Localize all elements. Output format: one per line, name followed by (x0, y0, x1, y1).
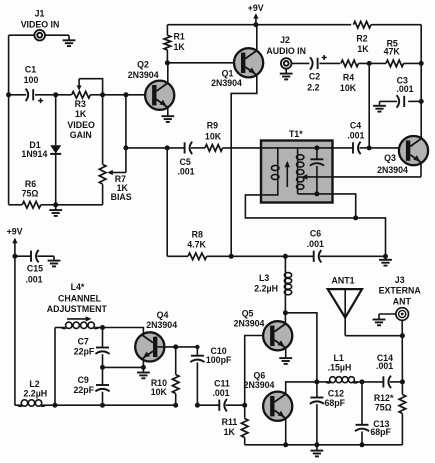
svg-text:100: 100 (24, 75, 39, 85)
Q5 base wire up from node (245, 336, 265, 406)
svg-text:+9V: +9V (7, 226, 23, 236)
node Q1 emitter / R8 row (229, 254, 234, 259)
svg-text:AUDIO IN: AUDIO IN (266, 46, 306, 56)
main ground bottom (316, 445, 318, 451)
wire R6 row to R7 bottom (56, 204, 103, 206)
svg-text:.15µH: .15µH (328, 363, 352, 373)
svg-text:R9: R9 (207, 121, 218, 131)
Q4 emitter down to junction and ground (142, 360, 144, 373)
capacitor C2 2.2 (317, 58, 319, 69)
capacitor C10 100pF (196, 347, 198, 356)
svg-text:J2: J2 (280, 35, 290, 45)
node left rail / C1 row (6, 92, 11, 97)
svg-text:2N3904: 2N3904 (146, 320, 177, 330)
resistor R8 4.7K (166, 148, 168, 256)
Q2 emitter to ground (167, 108, 169, 116)
svg-text:2N3904: 2N3904 (244, 380, 275, 390)
svg-text:10K: 10K (205, 131, 222, 141)
resistor R5 47K (386, 60, 404, 67)
node C7/C9 junction (100, 365, 105, 370)
ground at C15 (53, 256, 55, 260)
T1 secondary bottom wire out right (317, 194, 356, 218)
node D1 top (53, 92, 58, 97)
svg-text:L2: L2 (29, 379, 39, 389)
node L4/C7 top (100, 325, 105, 330)
svg-text:47K: 47K (384, 47, 401, 57)
Q5 collector wire up to L3 node (284, 313, 286, 324)
resistor R12 75ohm (399, 395, 406, 414)
svg-text:R2: R2 (356, 34, 367, 44)
svg-text:68pF: 68pF (370, 427, 391, 437)
T1 secondary tap wire to Q3 emitter (303, 176, 421, 178)
svg-text:10K: 10K (340, 83, 357, 93)
Q1 emitter wire jog down (231, 75, 257, 256)
svg-text:GAIN: GAIN (70, 130, 92, 140)
svg-text:J1: J1 (35, 8, 45, 18)
capacitor C13 68pF (361, 382, 363, 425)
resistor R11 1K (241, 419, 248, 438)
Q3 collector wire (420, 137, 422, 138)
bottom output rail (245, 444, 403, 446)
L4 coil (55, 327, 65, 329)
svg-text:.001: .001 (307, 239, 324, 249)
connector J2 AUDIO IN (281, 58, 292, 69)
svg-text:.001: .001 (212, 388, 229, 398)
node L3 top (283, 254, 288, 259)
ground at J1 (63, 39, 76, 41)
Q1 collector to +9V (256, 25, 258, 51)
svg-text:C15: C15 (27, 263, 43, 273)
svg-text:L3: L3 (259, 273, 269, 283)
wire L3 node jog right and down (285, 313, 317, 382)
wire Q1 base (167, 62, 234, 64)
node C11 / R11 / Q5 base (242, 403, 247, 408)
transistor Q3 2N3904 (399, 136, 428, 165)
L4 adjustment arrow (67, 318, 87, 320)
top +9V rail wire (167, 24, 351, 26)
svg-text:C4: C4 (350, 121, 361, 131)
svg-text:2N3904: 2N3904 (211, 78, 242, 88)
node / ground right of C6 (383, 254, 388, 259)
svg-text:J3: J3 (395, 275, 405, 285)
wire L4 row to Q4 collector (103, 328, 144, 335)
Q6 collector wire up-right (286, 382, 317, 394)
svg-text:R8: R8 (192, 230, 203, 240)
svg-text:VIDEO IN: VIDEO IN (21, 19, 60, 29)
resistor R4 10K (341, 60, 359, 67)
svg-text:.001: .001 (396, 84, 413, 94)
svg-text:75Ω: 75Ω (22, 188, 39, 198)
wire J1 left and down left rail (9, 34, 35, 36)
wire J2 to C2 (292, 62, 310, 64)
wire to Q2 base (103, 94, 153, 96)
resistor R1 1K (166, 25, 168, 36)
L4 left wire down (54, 328, 56, 406)
Q2 collector wire up (167, 63, 169, 83)
svg-text:T1*: T1* (289, 129, 303, 139)
svg-text:100pF: 100pF (206, 355, 232, 365)
transistor Q4 2N3904 (mirrored) (135, 332, 164, 361)
node C14 right / R12 top (400, 379, 405, 384)
J3 pin down to C14 node (401, 320, 403, 382)
svg-text:2N3904: 2N3904 (128, 70, 159, 80)
T1 internal capacitor (316, 148, 318, 159)
svg-text:R1: R1 (174, 31, 185, 41)
svg-text:10K: 10K (151, 387, 168, 397)
connector J1 VIDEO IN (34, 30, 45, 41)
capacitor C9 22pF (102, 367, 104, 385)
potentiometer R3 1K VIDEO GAIN (72, 92, 91, 99)
svg-text:Q5: Q5 (242, 309, 254, 319)
node R3 right (100, 92, 105, 97)
svg-text:2.2µH: 2.2µH (254, 284, 278, 294)
node B L1 left (314, 379, 319, 384)
svg-text:2.2: 2.2 (307, 82, 319, 92)
svg-text:.001: .001 (376, 361, 393, 371)
svg-text:C6: C6 (310, 228, 321, 238)
node D1 bottom / ground (53, 202, 58, 207)
svg-text:+9V: +9V (248, 3, 264, 13)
svg-text:L4*: L4* (71, 282, 85, 292)
ground at C3 (379, 101, 381, 105)
ground below D1/R6 (55, 205, 57, 210)
node R7 top junction (123, 92, 128, 97)
wire left rail down to R6 row (8, 95, 10, 205)
transistor Q5 2N3904 (263, 321, 292, 350)
Q5 emitter to ground (285, 348, 287, 358)
diode D1 1N914 (55, 95, 57, 145)
svg-text:Q4: Q4 (157, 310, 169, 320)
transistor Q6 2N3904 (263, 392, 292, 421)
wire C1 node to R3 (56, 94, 72, 96)
resistor R2 1K (353, 21, 371, 28)
wire antenna to J3 rail (345, 335, 402, 337)
capacitor C7 22pF (102, 328, 104, 348)
svg-text:EXTERNA: EXTERNA (379, 286, 422, 296)
svg-text:.001: .001 (25, 274, 42, 284)
svg-text:L1: L1 (334, 353, 344, 363)
svg-text:R6: R6 (25, 179, 36, 189)
svg-text:ANT1: ANT1 (332, 276, 355, 286)
svg-text:R3: R3 (75, 99, 86, 109)
svg-text:2N3904: 2N3904 (377, 165, 408, 175)
svg-text:1K: 1K (75, 109, 87, 119)
transistor Q2 2N3904 (145, 81, 174, 110)
svg-text:Q1: Q1 (222, 69, 234, 79)
resistor R10 10K (175, 347, 177, 375)
T1 primary return wire outside box (245, 195, 355, 218)
T1 tuning arrow (286, 163, 288, 188)
svg-text:.001: .001 (177, 166, 194, 176)
svg-text:Q2: Q2 (137, 59, 149, 69)
svg-text:1K: 1K (357, 44, 369, 54)
ground below J2 (285, 69, 287, 74)
potentiometer R7 1K BIAS (102, 95, 104, 164)
svg-text:BIAS: BIAS (111, 192, 132, 202)
svg-text:CHANNEL: CHANNEL (58, 293, 102, 303)
svg-text:4.7K: 4.7K (187, 239, 206, 249)
svg-text:VIDEO: VIDEO (67, 120, 95, 130)
svg-text:2.2µH: 2.2µH (23, 389, 47, 399)
svg-text:22pF: 22pF (74, 347, 95, 357)
svg-text:68pF: 68pF (325, 398, 346, 408)
wire junction to Q4 emitter (103, 366, 144, 368)
transistor Q1 2N3904 (234, 48, 263, 77)
T1 row wire through box (261, 147, 317, 149)
resistor R9 10K (205, 145, 223, 152)
capacitor C12 68pF (316, 382, 318, 398)
svg-text:2N3904: 2N3904 (234, 319, 265, 329)
T1 primary winding (277, 148, 279, 164)
svg-text:R4: R4 (343, 73, 354, 83)
node L2 right / L4 left (53, 403, 58, 408)
wire J1 right to ground (45, 34, 69, 36)
node L1 right (360, 379, 365, 384)
svg-text:R11: R11 (222, 417, 238, 427)
svg-text:Q3: Q3 (384, 153, 396, 163)
R7 wiper arrow from node (125, 95, 127, 173)
svg-text:ANT: ANT (393, 297, 412, 307)
node R1 bottom / Q1 base (165, 60, 170, 65)
svg-text:C2: C2 (309, 71, 320, 81)
svg-text:C7: C7 (78, 336, 89, 346)
J3 ground wire (379, 313, 396, 315)
node L3 bottom / Q5 collector (283, 310, 288, 315)
svg-text:1K: 1K (224, 427, 236, 437)
svg-text:.001: .001 (347, 130, 364, 140)
node R4/R5/C4 (367, 61, 372, 66)
Q6 emitter down (285, 419, 287, 445)
transformer T1 box (261, 141, 333, 203)
wire T1 bottom to ground node (356, 218, 386, 256)
svg-text:ADJUSTMENT: ADJUSTMENT (47, 304, 108, 314)
capacitor C11 .001 (197, 404, 219, 406)
Q4 base wire right (157, 346, 197, 348)
svg-text:C9: C9 (78, 375, 89, 385)
svg-text:75Ω: 75Ω (375, 402, 392, 412)
svg-text:22pF: 22pF (74, 385, 95, 395)
capacitor C4 .001 (317, 147, 353, 149)
Q3 emitter wire down-left to tap (420, 163, 422, 177)
T1 secondary winding (297, 148, 299, 154)
left +9V rail down to L2 (14, 256, 16, 405)
bottom-left rail wire (55, 404, 103, 406)
right rail down (420, 25, 422, 64)
svg-text:C1: C1 (25, 64, 36, 74)
wire node down to C4 row (368, 63, 370, 147)
svg-text:1K: 1K (174, 42, 186, 52)
svg-text:1N914: 1N914 (21, 149, 47, 159)
